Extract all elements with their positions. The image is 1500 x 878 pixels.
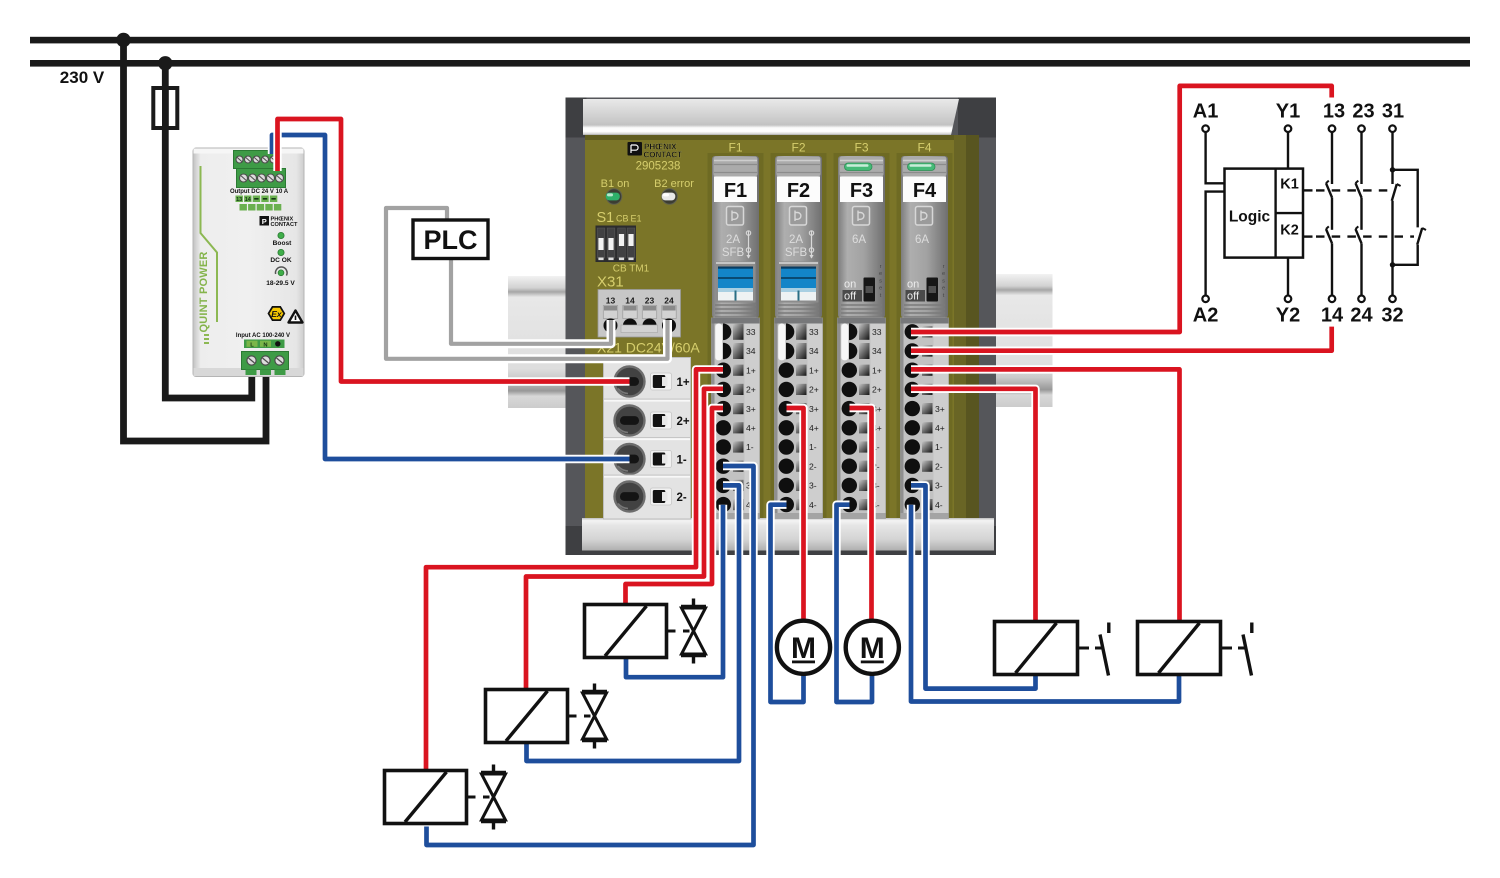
svg-text:Boost: Boost: [273, 240, 292, 247]
svg-text:2A: 2A: [726, 234, 740, 246]
status LED F4: [908, 163, 936, 171]
terminal F4:3-: [905, 478, 920, 493]
svg-text:2+: 2+: [746, 385, 756, 395]
label window F2: [777, 177, 820, 203]
svg-text:PLC: PLC: [424, 225, 478, 255]
terminal F2:3+: [779, 401, 794, 416]
terminal column F2: [775, 318, 823, 519]
svg-text:P: P: [262, 217, 267, 226]
svg-text:4+: 4+: [935, 423, 945, 433]
valve body Y1: [692, 599, 695, 607]
wire Y1 to K1: [1287, 132, 1289, 169]
svg-text:N: N: [263, 342, 267, 348]
LED B2: [662, 189, 678, 205]
svg-text:14: 14: [625, 296, 635, 306]
svg-text:on: on: [907, 279, 919, 291]
switch window F2: [779, 262, 819, 303]
svg-text:X31: X31: [597, 274, 624, 291]
svg-text:F1: F1: [728, 141, 742, 155]
terminal F4:1-: [905, 439, 920, 454]
label window F3: [840, 177, 883, 203]
wire valve Y4 return to F4:3-: [911, 485, 1036, 688]
logo Phoenix Contact on module: [628, 142, 683, 160]
svg-text:34: 34: [872, 346, 882, 356]
svg-text:3-: 3-: [935, 481, 943, 491]
motor M2: [846, 621, 899, 674]
terminal F4:4-: [905, 497, 920, 512]
wire PLC to X31:24: [386, 208, 668, 359]
svg-text:24: 24: [664, 296, 674, 306]
svg-text:e: e: [942, 271, 945, 277]
terminal F2:4+: [779, 420, 794, 435]
svg-text:e: e: [942, 286, 945, 292]
valve body Y3: [492, 765, 495, 773]
svg-text:QUINT POWER: QUINT POWER: [198, 251, 210, 332]
svg-text:Y2: Y2: [1276, 305, 1300, 327]
wire valve Y1 return to F1:4-: [626, 505, 723, 678]
svg-text:Logic: Logic: [1229, 209, 1271, 226]
svg-text:23: 23: [645, 296, 655, 306]
module top cover: [583, 99, 959, 135]
svg-text:1-: 1-: [677, 455, 687, 467]
PSU output terminal block row 2: [237, 169, 286, 188]
svg-text:4+: 4+: [746, 423, 756, 433]
svg-text:2-: 2-: [935, 461, 943, 471]
svg-text:3-: 3-: [809, 481, 817, 491]
svg-text:13: 13: [236, 197, 242, 203]
junction on bus N: [158, 56, 172, 70]
terminal block X21: [604, 358, 691, 520]
svg-text:F4: F4: [913, 180, 937, 202]
svg-text:4-: 4-: [809, 500, 817, 510]
terminal F3:3+: [842, 401, 857, 416]
svg-text:1+: 1+: [809, 365, 819, 375]
terminal X21:2+: [615, 406, 645, 436]
svg-text:33: 33: [746, 327, 756, 337]
svg-text:33: 33: [809, 327, 819, 337]
label window F1: [714, 177, 757, 203]
svg-text:SFB: SFB: [785, 247, 808, 259]
actuator line K2: [1303, 235, 1313, 237]
warning triangle: [289, 311, 303, 323]
svg-text:4+: 4+: [809, 423, 819, 433]
terminal F3:1-: [842, 439, 857, 454]
wire PSU+ to X21:1+: [278, 119, 630, 382]
release lever F3: [841, 324, 849, 361]
solenoid valve Y5: [1138, 622, 1252, 676]
svg-text:F4: F4: [917, 141, 931, 155]
svg-text:13: 13: [1323, 101, 1345, 123]
svg-text:14: 14: [245, 197, 252, 203]
terminal F3:4+: [842, 420, 857, 435]
terminal F1:1+: [716, 363, 731, 378]
actuator line K1: [1303, 189, 1313, 191]
svg-text:3+: 3+: [809, 404, 819, 414]
terminal F4:4+: [905, 420, 920, 435]
contact path 1332: [1331, 132, 1333, 184]
junction on bus L: [116, 33, 130, 47]
terminal F2:4-: [779, 497, 794, 512]
svg-text:34: 34: [809, 346, 819, 356]
terminal F3:2-: [842, 459, 857, 474]
svg-text:1-: 1-: [746, 442, 754, 452]
terminal column F3: [838, 318, 886, 519]
svg-text:F3: F3: [850, 180, 873, 202]
contact path 1361.5: [1360, 132, 1362, 184]
svg-text:s: s: [942, 278, 945, 284]
terminal X21:2-: [615, 482, 645, 512]
svg-text:K1: K1: [1280, 177, 1299, 193]
terminal F4:34: [905, 343, 920, 358]
svg-text:2905238: 2905238: [636, 161, 681, 173]
Ex marking: [269, 307, 285, 320]
terminal F1:3-: [716, 478, 731, 493]
wire A2 to logic: [1206, 192, 1225, 296]
circuit breaker F4: [897, 141, 953, 519]
svg-text:DC OK: DC OK: [270, 257, 291, 264]
svg-text:1+: 1+: [746, 365, 756, 375]
svg-text:32: 32: [1381, 305, 1403, 327]
svg-text:230 V: 230 V: [60, 68, 105, 87]
terminal F2:33: [786, 324, 794, 341]
svg-text:6A: 6A: [852, 234, 866, 246]
terminal F4:33: [905, 324, 920, 339]
svg-text:SFB: SFB: [722, 247, 745, 259]
svg-text:1+: 1+: [872, 365, 882, 375]
svg-text:3+: 3+: [746, 404, 756, 414]
wire F1:1+ to valve Y3: [426, 369, 723, 770]
svg-text:CB: CB: [616, 214, 629, 224]
DIN rail right segment: [995, 274, 1053, 407]
svg-text:Ex: Ex: [271, 309, 283, 319]
terminal F1:4-: [716, 497, 731, 512]
terminal column F4: [901, 318, 949, 519]
terminal column F1: [712, 318, 760, 519]
svg-text:18-29.5 V: 18-29.5 V: [266, 280, 295, 287]
terminal X21:1+: [615, 367, 645, 397]
wire PLC to X31:13: [451, 256, 611, 344]
svg-text:r: r: [880, 264, 882, 270]
solenoid valve Y4: [995, 622, 1109, 676]
svg-text:L: L: [250, 342, 254, 348]
wire F4:34 to relay terminal 14: [911, 327, 1332, 351]
terminal F2:1-: [779, 439, 794, 454]
svg-text:2-: 2-: [677, 492, 687, 504]
svg-text:1+: 1+: [677, 377, 690, 389]
terminal F3:2+: [842, 382, 857, 397]
svg-text:M: M: [791, 632, 816, 665]
circuit breaker F3: [834, 141, 890, 519]
wire Y2 from logic: [1287, 258, 1289, 296]
terminal F2:1+: [779, 363, 794, 378]
circuit breaker F2: [771, 141, 827, 519]
LED DC OK: [278, 249, 284, 255]
svg-text:2A: 2A: [789, 234, 803, 246]
status LED F3: [845, 163, 873, 171]
wire 230V bus N: [30, 60, 1470, 67]
svg-text:E1: E1: [631, 214, 642, 224]
terminal F1:1-: [716, 439, 731, 454]
svg-text:off: off: [907, 291, 920, 303]
LED Boost: [278, 232, 284, 238]
auxiliary contact path 31-32: [1391, 132, 1393, 170]
svg-text:23: 23: [1352, 101, 1374, 123]
terminal F2:2+: [779, 382, 794, 397]
svg-text:14: 14: [1321, 305, 1344, 327]
fuse F5: [153, 88, 177, 128]
svg-text:2+: 2+: [809, 385, 819, 395]
wire 230V bus L: [30, 37, 1470, 44]
module bottom cover: [582, 518, 994, 554]
PSU output terminal block row 1: [234, 151, 279, 169]
wire F4:33 to relay terminal 13: [911, 86, 1332, 332]
terminal F4:2+: [905, 382, 920, 397]
svg-text:B1 on: B1 on: [601, 178, 630, 190]
terminal F2:34: [786, 343, 794, 360]
PSU brand logo: [260, 216, 270, 226]
svg-text:2+: 2+: [677, 416, 690, 428]
svg-text:S1: S1: [597, 210, 615, 226]
svg-text:3+: 3+: [935, 404, 945, 414]
svg-text:34: 34: [746, 346, 756, 356]
PSU input marking strip L N PE: [244, 340, 285, 349]
terminal F3:3-: [842, 478, 857, 493]
potentiometer 18-29.5 V: [275, 267, 287, 276]
svg-text:24: 24: [1350, 305, 1373, 327]
svg-text:1-: 1-: [935, 442, 943, 452]
svg-text:A2: A2: [1193, 305, 1219, 327]
wire motor M2 return to F3:4-: [837, 505, 873, 702]
terminal F3:1+: [842, 363, 857, 378]
svg-text:F3: F3: [854, 141, 868, 155]
svg-text:A1: A1: [1193, 101, 1219, 123]
terminal block X31: [598, 290, 681, 338]
svg-text:31: 31: [1382, 101, 1404, 123]
circuit breaker module U1 CBTM housing: [566, 98, 997, 556]
solenoid valve Y3: [385, 765, 507, 830]
terminal F4:2-: [905, 459, 920, 474]
label window F4: [903, 177, 946, 203]
phoenix icon F1: [727, 207, 744, 226]
DIN rail left segment: [508, 276, 566, 408]
svg-text:Input AC 100-240 V: Input AC 100-240 V: [236, 333, 290, 339]
motor M1: [777, 621, 830, 674]
safety relay K logic diagram: [1193, 101, 1426, 327]
wire valve Y5 return to F4:4-: [911, 505, 1179, 702]
wire F1:2+ to valve Y2: [526, 389, 723, 689]
controller PLC: [413, 220, 488, 259]
svg-text:13: 13: [606, 296, 616, 306]
svg-text:Y1: Y1: [1276, 101, 1300, 123]
terminal F2:3-: [779, 478, 794, 493]
svg-text:Output DC 24 V 10 A: Output DC 24 V 10 A: [230, 189, 289, 195]
svg-text:2-: 2-: [809, 461, 817, 471]
svg-text:33: 33: [872, 327, 882, 337]
power supply U2 QUINT POWER: [193, 148, 304, 377]
terminal F4:3+: [905, 401, 920, 416]
switch window F1: [716, 262, 756, 303]
terminal F3:4-: [842, 497, 857, 512]
terminal F1:3+: [716, 401, 731, 416]
terminal F1:34: [723, 343, 731, 360]
svg-text:M: M: [860, 632, 885, 665]
svg-text:r: r: [943, 264, 945, 270]
terminal F1:4+: [716, 420, 731, 435]
phoenix icon F4: [916, 207, 933, 226]
svg-text:e: e: [879, 286, 882, 292]
release lever F2: [778, 324, 786, 361]
circuit breaker F1: [708, 141, 764, 519]
PSU input terminal block: [242, 352, 289, 370]
wire A1 to logic: [1206, 132, 1225, 183]
svg-text:4-: 4-: [935, 500, 943, 510]
release lever F1: [715, 324, 723, 361]
wire F3:3+ to motor M2: [850, 408, 872, 621]
svg-text:e: e: [879, 271, 882, 277]
terminal F1:2+: [716, 382, 731, 397]
DIP switch S1: [596, 226, 637, 263]
svg-text:CONTACT: CONTACT: [271, 222, 299, 228]
phoenix icon F3: [853, 207, 870, 226]
relay coil K1: [1274, 169, 1276, 258]
wire motor M1 return to F2:4-: [771, 505, 804, 702]
LED B1: [606, 189, 622, 205]
wire mains N to PSU: [124, 40, 267, 441]
terminal F3:33: [849, 324, 857, 341]
terminal F1:33: [723, 324, 731, 341]
wire valve Y2 return to F1:3-: [527, 485, 740, 761]
wire F1:3+ to valve Y1: [626, 408, 724, 604]
PSU signal terminal labels 13 14: [236, 196, 243, 203]
wire mains L via fuse to PSU: [165, 63, 252, 398]
wire F4:1+ to valve Y5: [911, 369, 1180, 621]
valve body Y2: [593, 684, 596, 692]
svg-text:B2 error: B2 error: [654, 178, 694, 190]
solenoid valve Y2: [486, 684, 608, 749]
svg-text:F1: F1: [724, 180, 747, 202]
terminal F3:34: [849, 343, 857, 360]
terminal X21:1-: [615, 444, 645, 474]
terminal F4:1+: [905, 363, 920, 378]
module front panel: [585, 135, 979, 518]
switch contact of Y5: [1243, 635, 1252, 676]
svg-text:on: on: [844, 279, 856, 291]
terminal F1:2-: [716, 459, 731, 474]
svg-text:s: s: [879, 278, 882, 284]
logic box: [1225, 169, 1304, 258]
solenoid valve Y1: [585, 599, 707, 664]
svg-text:off: off: [844, 291, 857, 303]
wire F4:2+ to valve Y4: [911, 389, 1036, 621]
svg-text:2+: 2+: [872, 385, 882, 395]
phoenix icon F2: [790, 207, 807, 226]
wire valve Y3 return to F1:2-: [427, 466, 754, 845]
svg-text:K2: K2: [1280, 223, 1299, 239]
svg-text:F2: F2: [787, 180, 810, 202]
svg-text:CONTACT: CONTACT: [644, 151, 683, 160]
svg-text:6A: 6A: [915, 234, 929, 246]
wire F2:3+ to motor M1: [787, 408, 804, 621]
svg-text:F2: F2: [791, 141, 805, 155]
switch contact of Y4: [1100, 635, 1109, 676]
terminal F2:2-: [779, 459, 794, 474]
svg-text:1-: 1-: [809, 442, 817, 452]
wire PSU- to X21:1-: [272, 135, 630, 459]
